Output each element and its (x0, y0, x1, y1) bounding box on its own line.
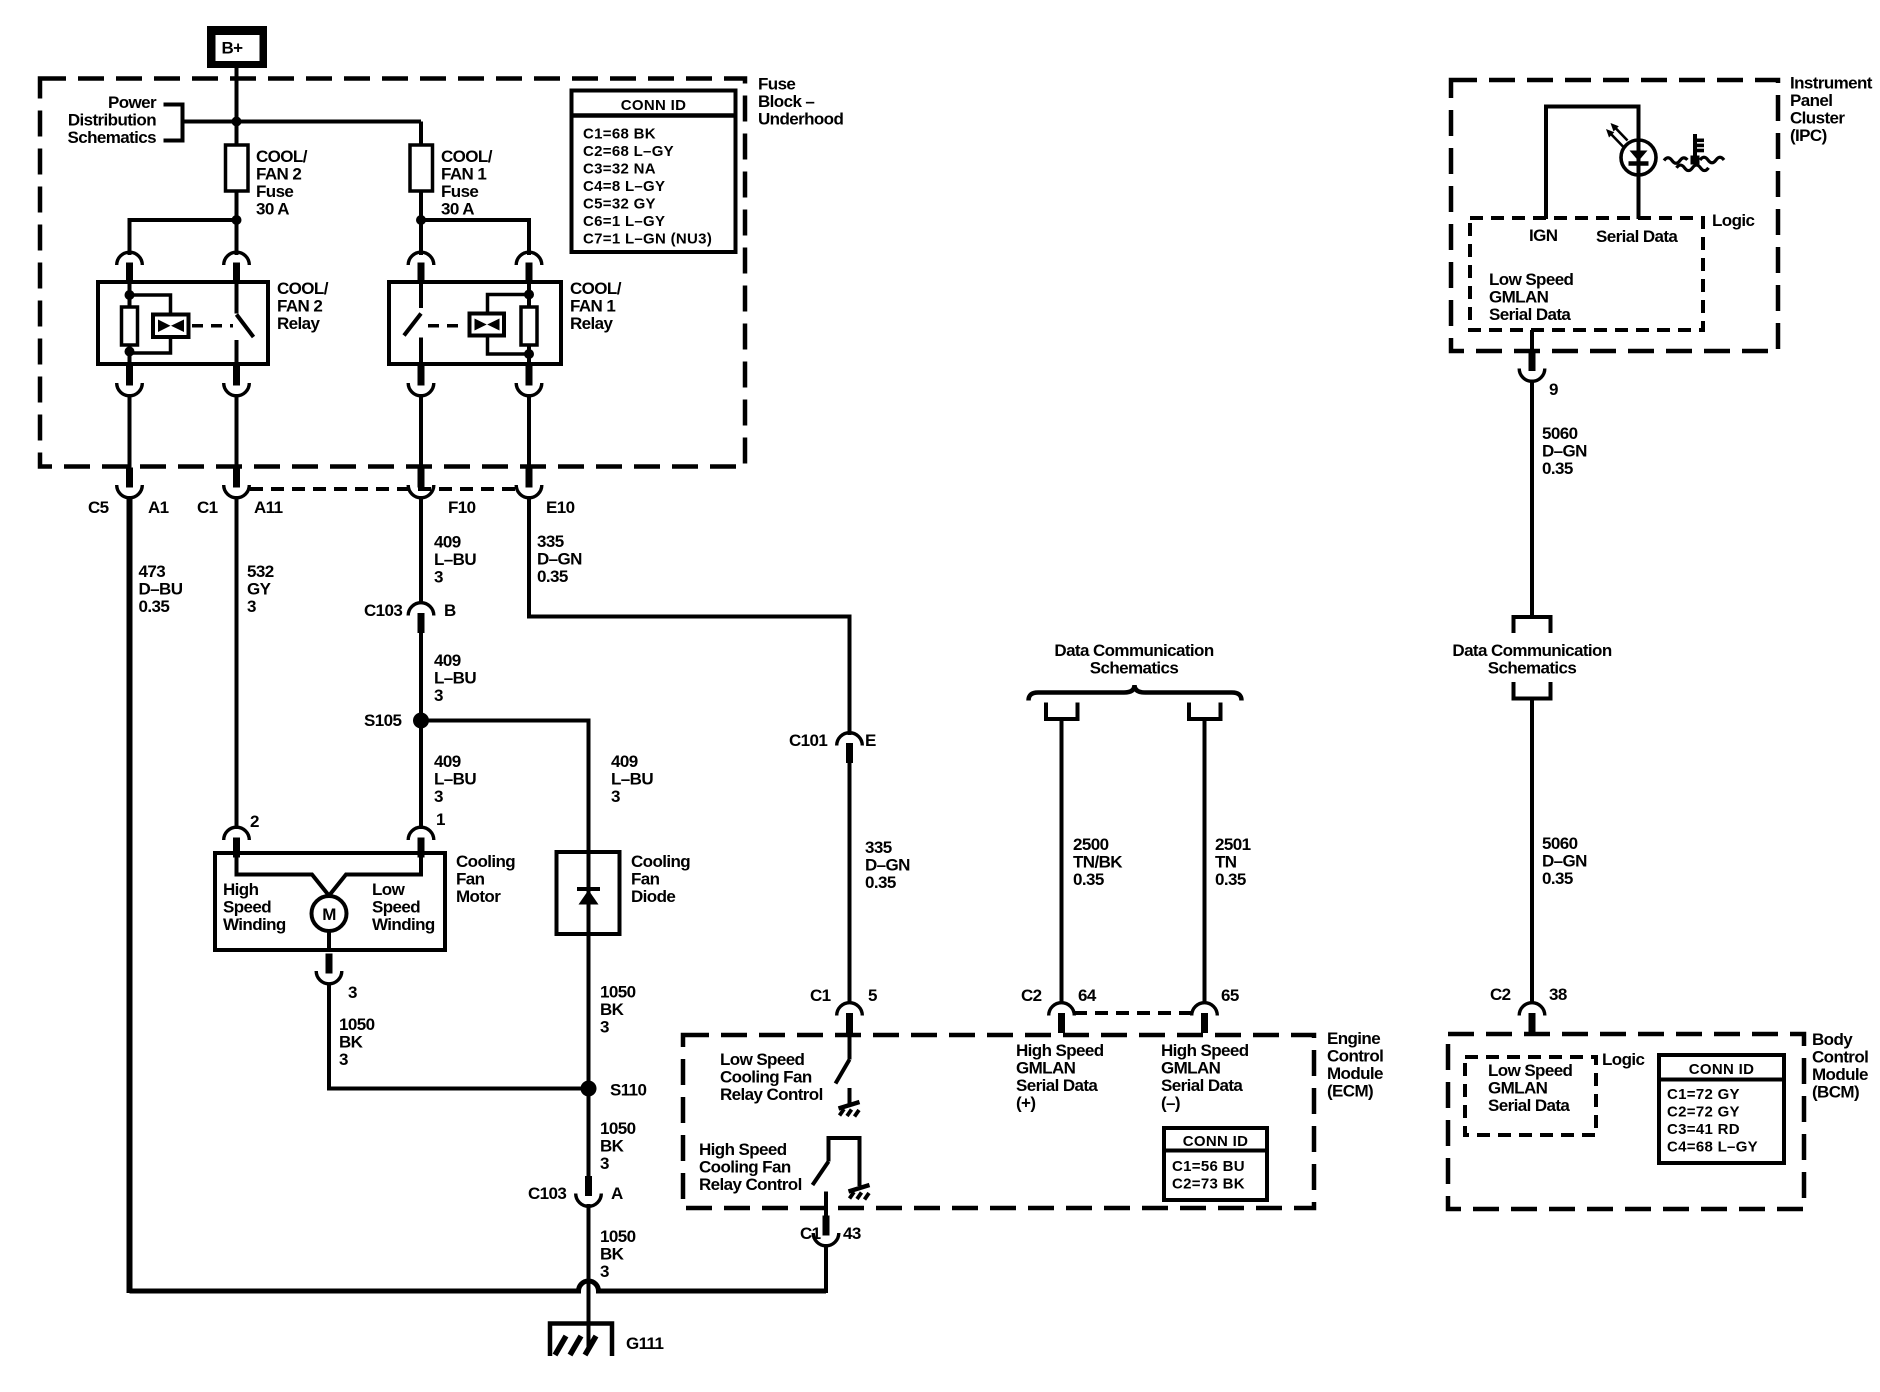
brace data communication (1029, 685, 1242, 701)
wire 409 L-BU C103B to S105 (419, 628, 423, 722)
svg-text:Motor: Motor (456, 887, 501, 906)
svg-text:Schematics: Schematics (68, 128, 157, 147)
svg-text:L–BU: L–BU (434, 550, 476, 569)
label Instrument Panel Cluster (IPC) (1790, 74, 1873, 146)
svg-text:BK: BK (600, 1000, 625, 1019)
svg-text:GMLAN: GMLAN (1489, 288, 1549, 307)
svg-text:Power: Power (108, 93, 157, 112)
switch K2 fixed bottom (235, 340, 239, 364)
diode D1 symbol (577, 889, 600, 905)
svg-text:FAN 2: FAN 2 (256, 165, 301, 184)
svg-text:GMLAN: GMLAN (1161, 1059, 1221, 1078)
svg-text:Instrument: Instrument (1790, 74, 1873, 93)
wire K1 coil out (527, 394, 531, 470)
offpage connector top (1514, 617, 1551, 633)
coolant temperature symbol (1664, 134, 1724, 171)
resistor K1 coil (521, 307, 537, 345)
label COOL/FAN 1 Relay (570, 279, 622, 333)
svg-text:Body: Body (1812, 1030, 1853, 1049)
label COOL/FAN 2 Relay (277, 279, 329, 333)
svg-text:409: 409 (434, 752, 461, 771)
svg-text:C1=56 BU: C1=56 BU (1172, 1158, 1245, 1175)
wire S105 to motor pin1 (419, 721, 423, 830)
label High Speed GMLAN Serial Data (+) (1016, 1041, 1104, 1113)
node K1 coil bottom junction (524, 349, 534, 359)
svg-text:Diode: Diode (631, 887, 675, 906)
svg-text:Relay: Relay (570, 314, 614, 333)
table BCM CONN ID (1659, 1055, 1784, 1163)
offpage connector bottom (1514, 682, 1551, 699)
switch K2 fixed top (235, 282, 239, 314)
svg-text:A1: A1 (148, 498, 169, 517)
label Engine Control Module (ECM) (1327, 1029, 1383, 1101)
switch low speed relay control blade (836, 1060, 850, 1084)
module ECM dashed box (683, 1035, 1314, 1208)
label wire 1050 BK 3 lower (600, 1227, 636, 1281)
connector C2 pin 64 (1049, 1003, 1075, 1033)
label Low Speed Cooling Fan Relay Control (720, 1050, 823, 1104)
connector C103 pin B (408, 603, 434, 633)
label wire 335 D-GN 0.35 upper (537, 532, 582, 586)
svg-text:3: 3 (434, 568, 443, 587)
svg-text:C2=68 L–GY: C2=68 L–GY (583, 143, 674, 160)
svg-text:Low Speed: Low Speed (720, 1050, 805, 1069)
label wire 5060 D-GN 0.35 lower (1542, 834, 1587, 888)
svg-text:A11: A11 (254, 498, 283, 517)
svg-text:0.35: 0.35 (1542, 459, 1573, 478)
svg-text:E10: E10 (546, 498, 575, 517)
diode D1 cooling fan box (557, 852, 620, 934)
wire motor low-speed lead (328, 853, 422, 898)
connector relay K2 switch bottom (224, 366, 250, 396)
wire K2 coil out (128, 394, 132, 470)
svg-text:C103: C103 (364, 601, 402, 620)
svg-text:3: 3 (434, 787, 443, 806)
connector relay K2 switch top (224, 252, 250, 282)
wire 473 D-BU bottom rail with hop (130, 1281, 827, 1291)
fuse COOL/FAN 2 30A (226, 145, 249, 191)
svg-text:Serial Data: Serial Data (1161, 1076, 1243, 1095)
svg-text:Low: Low (372, 880, 406, 899)
switch K1 fixed top (419, 282, 423, 308)
label Cooling Fan Diode (631, 852, 690, 906)
svg-text:Control: Control (1812, 1048, 1868, 1067)
connector motor pin 3 (316, 954, 342, 984)
svg-text:0.35: 0.35 (537, 567, 568, 586)
connector motor pin 2 (224, 827, 250, 857)
svg-text:Serial Data: Serial Data (1016, 1076, 1098, 1095)
wire S105 branch to diode (421, 721, 589, 1091)
svg-text:Data Communication: Data Communication (1054, 641, 1213, 660)
svg-text:65: 65 (1221, 986, 1239, 1005)
svg-text:532: 532 (247, 562, 274, 581)
svg-text:C2: C2 (1490, 985, 1511, 1004)
connector C2 pin 65 (1192, 1003, 1218, 1033)
svg-text:38: 38 (1549, 985, 1567, 1004)
wire 5060 D-GN upper (1530, 380, 1534, 618)
svg-text:GMLAN: GMLAN (1016, 1059, 1076, 1078)
svg-text:Fan: Fan (456, 870, 485, 889)
node splice S105 (413, 713, 429, 729)
svg-text:L–BU: L–BU (434, 770, 476, 789)
relay COOL/FAN 2 box (98, 282, 268, 364)
svg-text:Winding: Winding (223, 915, 286, 934)
svg-text:43: 43 (843, 1224, 861, 1243)
label Low Speed GMLAN Serial Data BCM (1488, 1061, 1573, 1115)
svg-text:3: 3 (348, 983, 357, 1002)
wire 2501 TN (1203, 719, 1207, 1004)
svg-text:GMLAN: GMLAN (1488, 1079, 1548, 1098)
svg-text:2500: 2500 (1073, 835, 1109, 854)
svg-text:BK: BK (600, 1137, 625, 1156)
wire K2 linkage dashed (192, 324, 233, 328)
svg-text:Control: Control (1327, 1047, 1383, 1066)
svg-text:0.35: 0.35 (1542, 869, 1573, 888)
svg-text:CONN ID: CONN ID (1689, 1061, 1754, 1078)
wire C1-43 to rail (824, 1244, 828, 1293)
svg-text:30 A: 30 A (441, 200, 474, 219)
svg-text:L–BU: L–BU (611, 770, 653, 789)
svg-text:Relay Control: Relay Control (699, 1175, 802, 1194)
node K2 coil top junction (125, 290, 135, 300)
wire S110 to C103A (587, 1089, 591, 1181)
connector C103 pin A (576, 1176, 602, 1206)
svg-text:Low Speed: Low Speed (1488, 1061, 1573, 1080)
svg-text:1050: 1050 (600, 1227, 636, 1246)
svg-text:M: M (322, 905, 336, 924)
connector relay K2 coil top (117, 252, 143, 282)
wire fuse1 drop (419, 122, 423, 221)
svg-text:B+: B+ (222, 39, 244, 58)
label Data Communication Schematics offpage (1452, 641, 1611, 678)
svg-text:0.35: 0.35 (865, 873, 896, 892)
svg-text:1: 1 (436, 810, 445, 829)
svg-text:9: 9 (1549, 380, 1558, 399)
wire K2 coil parallel branch (130, 295, 171, 353)
fuse block dashed border (40, 79, 745, 467)
label wire 2501 TN 0.35 (1215, 835, 1251, 889)
svg-text:C103: C103 (528, 1184, 566, 1203)
svg-text:409: 409 (434, 533, 461, 552)
svg-text:C2: C2 (1021, 986, 1042, 1005)
node junction fuse1 out (416, 215, 426, 225)
svg-text:(–): (–) (1161, 1094, 1180, 1113)
wire K1 coil pin upper (527, 282, 531, 308)
svg-text:Serial Data: Serial Data (1596, 227, 1678, 246)
svg-text:Schematics: Schematics (1488, 659, 1577, 678)
svg-text:FAN 1: FAN 1 (441, 165, 486, 184)
label Cooling Fan Motor (456, 852, 515, 906)
svg-text:Schematics: Schematics (1090, 659, 1179, 678)
wire C103A to ground (587, 1204, 591, 1348)
power symbol B+ box (207, 26, 267, 68)
connector relay K1 switch top (408, 252, 434, 282)
svg-text:5060: 5060 (1542, 424, 1578, 443)
wire relay K1 pin86 drop (527, 218, 531, 255)
svg-text:1050: 1050 (600, 1119, 636, 1138)
resistor K2 coil (122, 307, 138, 345)
svg-text:CONN ID: CONN ID (621, 97, 686, 114)
svg-text:2501: 2501 (1215, 835, 1251, 854)
label wire 1050 BK 3 upper (600, 1119, 636, 1173)
svg-text:0.35: 0.35 (1073, 870, 1104, 889)
svg-text:Cooling: Cooling (631, 852, 690, 871)
label wire 532 GY 3 (247, 562, 274, 616)
svg-text:Relay: Relay (277, 314, 321, 333)
connector C101 pin E (837, 733, 863, 763)
svg-text:Serial Data: Serial Data (1488, 1096, 1570, 1115)
svg-text:High Speed: High Speed (1161, 1041, 1249, 1060)
connector C5 pin A1 (117, 468, 143, 498)
switch high speed relay control fixed (829, 1138, 860, 1186)
table fuse block CONN ID (572, 91, 736, 253)
wire 335 D-GN C101 to ECM (848, 758, 852, 1004)
svg-text:A: A (611, 1184, 623, 1203)
svg-text:High: High (223, 880, 259, 899)
svg-text:High Speed: High Speed (1016, 1041, 1104, 1060)
coil K2 X-box (153, 315, 189, 338)
svg-text:0.35: 0.35 (139, 597, 170, 616)
wire 473 D-BU from A1 (127, 496, 133, 1293)
connector relay K1 switch bottom (408, 366, 434, 396)
svg-text:E: E (865, 731, 876, 750)
svg-text:GY: GY (247, 580, 272, 599)
svg-text:D–GN: D–GN (1542, 852, 1587, 871)
wire fan1 branch rail (421, 218, 529, 222)
wire IPC serial out (1530, 330, 1534, 355)
svg-text:C4=68 L–GY: C4=68 L–GY (1667, 1139, 1758, 1156)
wire K2 switch out (235, 394, 239, 470)
wire K1 coil parallel branch (488, 295, 530, 355)
label wire 409 L-BU 3 middle (434, 651, 476, 705)
wire 5060 D-GN lower (1530, 699, 1534, 1005)
label High Speed Winding (223, 880, 286, 934)
svg-text:Relay Control: Relay Control (720, 1085, 823, 1104)
label wire 409 L-BU 3 lower left (434, 752, 476, 806)
wire fuse2 drop (235, 122, 239, 221)
svg-text:3: 3 (600, 1018, 609, 1037)
svg-text:Distribution: Distribution (68, 111, 156, 130)
svg-text:Block –: Block – (758, 92, 814, 111)
svg-text:C5=32 GY: C5=32 GY (583, 196, 656, 213)
svg-text:3: 3 (611, 787, 620, 806)
svg-text:Cluster: Cluster (1790, 109, 1845, 128)
svg-text:S105: S105 (364, 711, 401, 730)
connector fork GMLAN- (1189, 703, 1221, 720)
wire IPC led to logic (1637, 170, 1641, 219)
svg-text:(+): (+) (1016, 1094, 1035, 1113)
svg-text:FAN 2: FAN 2 (277, 297, 322, 316)
coil K1 X-box (470, 314, 505, 336)
LED arrow 2 (1606, 129, 1623, 147)
svg-text:D–GN: D–GN (1542, 442, 1587, 461)
svg-text:Fuse: Fuse (256, 182, 293, 201)
svg-text:Fuse: Fuse (441, 182, 478, 201)
svg-text:C1: C1 (197, 498, 218, 517)
svg-text:D–BU: D–BU (139, 580, 183, 599)
wire B+ to rail (235, 68, 239, 123)
motor M1 symbol (312, 896, 347, 931)
wire 335 D-GN from E10 (529, 496, 850, 735)
node junction rail/B+ (232, 117, 242, 127)
wire 2500 TN/BK (1060, 719, 1064, 1004)
LED indicator symbol (1621, 140, 1656, 175)
svg-text:Speed: Speed (372, 898, 420, 917)
wire power rail (183, 120, 422, 124)
switch K2 blade (237, 315, 254, 338)
logic IPC dashed box (1470, 218, 1703, 330)
svg-text:F10: F10 (448, 498, 476, 517)
svg-text:C1=72 GY: C1=72 GY (1667, 1086, 1740, 1103)
svg-text:409: 409 (434, 651, 461, 670)
svg-text:C1: C1 (800, 1224, 821, 1243)
LED arrow 1 (1611, 123, 1628, 141)
module IPC dashed box (1451, 80, 1778, 351)
svg-text:0.35: 0.35 (1215, 870, 1246, 889)
wire K1 coil pin lower (527, 344, 531, 364)
svg-text:C1=68 BK: C1=68 BK (583, 126, 656, 143)
label Body Control Module (BCM) (1812, 1030, 1868, 1102)
svg-text:473: 473 (139, 562, 166, 581)
svg-text:335: 335 (865, 838, 892, 857)
svg-text:(BCM): (BCM) (1812, 1083, 1859, 1102)
svg-text:335: 335 (537, 532, 564, 551)
wire motor high-speed lead (237, 853, 331, 898)
svg-text:409: 409 (611, 752, 638, 771)
wire relay K2 pin86 drop (128, 218, 132, 255)
switch K1 fixed bottom (419, 338, 423, 365)
svg-text:B: B (444, 601, 456, 620)
svg-text:Cooling Fan: Cooling Fan (720, 1068, 812, 1087)
svg-text:3: 3 (339, 1050, 348, 1069)
svg-text:Speed: Speed (223, 898, 271, 917)
wire 532 GY from A11 (235, 496, 239, 829)
svg-text:Logic: Logic (1712, 211, 1754, 230)
svg-text:COOL/: COOL/ (277, 279, 329, 298)
svg-text:COOL/: COOL/ (256, 147, 308, 166)
svg-text:CONN ID: CONN ID (1183, 1133, 1248, 1150)
svg-text:COOL/: COOL/ (441, 147, 493, 166)
wire K2 coil pin upper (128, 282, 132, 308)
connector fork GMLAN+ (1046, 703, 1078, 720)
label wire 409 L-BU 3 upper (434, 533, 476, 587)
svg-text:5060: 5060 (1542, 834, 1578, 853)
svg-text:C3=32 NA: C3=32 NA (583, 161, 656, 178)
svg-text:D–GN: D–GN (537, 550, 582, 569)
wire IPC ign loop (1546, 107, 1639, 220)
svg-text:Fan: Fan (631, 870, 660, 889)
wire relay K2 pin30 drop (235, 220, 239, 255)
svg-text:G111: G111 (626, 1334, 663, 1353)
svg-text:Cooling: Cooling (456, 852, 515, 871)
svg-text:3: 3 (434, 686, 443, 705)
svg-text:COOL/: COOL/ (570, 279, 622, 298)
svg-text:1050: 1050 (600, 983, 636, 1002)
svg-text:L–BU: L–BU (434, 669, 476, 688)
label High Speed GMLAN Serial Data (-) (1161, 1041, 1249, 1113)
svg-text:IGN: IGN (1529, 226, 1558, 245)
svg-text:C1: C1 (810, 986, 831, 1005)
svg-text:High Speed: High Speed (699, 1140, 787, 1159)
svg-text:Serial Data: Serial Data (1489, 305, 1571, 324)
wire K1 linkage dashed (428, 324, 466, 328)
switch low speed relay control bottom (848, 1088, 852, 1104)
connector C1 pin 5 (837, 1003, 863, 1033)
svg-text:BK: BK (600, 1245, 625, 1264)
svg-text:C101: C101 (789, 731, 827, 750)
wire K1 switch out (419, 394, 423, 470)
module BCM dashed box (1448, 1034, 1804, 1209)
label Power Distribution Schematics (68, 93, 157, 147)
connector IPC pin 9 (1519, 351, 1545, 381)
wire 409 L-BU from F10 (419, 496, 423, 604)
node junction fuse2 out (232, 215, 242, 225)
connector relay K1 coil bottom (516, 366, 542, 396)
svg-text:Fuse: Fuse (758, 75, 795, 94)
wire K2 coil pin lower (128, 344, 132, 364)
connector C1 pin 43 (813, 1216, 839, 1246)
svg-text:Panel: Panel (1790, 91, 1832, 110)
node K1 coil top junction (524, 290, 534, 300)
svg-text:Data Communication: Data Communication (1452, 641, 1611, 660)
connector motor pin 1 (408, 827, 434, 857)
logic BCM dashed box (1465, 1057, 1596, 1135)
label COOL/FAN 2 Fuse 30 A (256, 147, 308, 219)
label Data Communication Schematics ECM (1054, 641, 1213, 678)
label wire 2500 TN/BK 0.35 (1073, 835, 1123, 889)
label High Speed Cooling Fan Relay Control (699, 1140, 802, 1194)
svg-text:C5: C5 (88, 498, 109, 517)
power distribution bracket (164, 105, 183, 141)
fuse COOL/FAN 1 30A (410, 145, 433, 191)
svg-text:BK: BK (339, 1033, 364, 1052)
connector relay K1 coil top (516, 252, 542, 282)
svg-text:Low Speed: Low Speed (1489, 270, 1574, 289)
svg-text:Module: Module (1812, 1065, 1868, 1084)
svg-text:TN: TN (1215, 853, 1237, 872)
svg-text:Cooling Fan: Cooling Fan (699, 1158, 791, 1177)
svg-text:S110: S110 (610, 1081, 647, 1100)
ground ECM high speed (849, 1185, 870, 1200)
svg-text:Module: Module (1327, 1064, 1383, 1083)
svg-text:D–GN: D–GN (865, 856, 910, 875)
label wire 335 D-GN 0.35 lower (865, 838, 910, 892)
connector relay K2 coil bottom (117, 366, 143, 396)
label wire 409 L-BU 3 lower right (611, 752, 653, 806)
table ECM CONN ID (1164, 1128, 1267, 1200)
label wire 473 D-BU 0.35 (139, 562, 183, 616)
switch K1 blade (404, 314, 421, 336)
switch low speed relay control top (848, 1035, 852, 1060)
svg-text:(ECM): (ECM) (1327, 1082, 1373, 1101)
svg-text:C6=1 L–GY: C6=1 L–GY (583, 213, 665, 230)
label Fuse Block Underhood (758, 75, 843, 129)
svg-text:3: 3 (247, 597, 256, 616)
node splice S110 (581, 1081, 597, 1097)
svg-text:(IPC): (IPC) (1790, 126, 1827, 145)
label wire 1050 BK 3 diode (600, 983, 636, 1037)
connector pin E10 (516, 468, 542, 498)
svg-text:Logic: Logic (1602, 1050, 1644, 1069)
label Low Speed Winding (372, 880, 435, 934)
switch high speed relay control blade (813, 1162, 829, 1186)
node K2 coil bottom junction (125, 347, 135, 357)
wire relay K1 pin30 drop (419, 220, 423, 255)
connector C1 pin A11 (224, 468, 250, 498)
svg-text:3: 3 (600, 1262, 609, 1281)
relay COOL/FAN 1 box (389, 282, 561, 364)
svg-text:FAN 1: FAN 1 (570, 297, 615, 316)
